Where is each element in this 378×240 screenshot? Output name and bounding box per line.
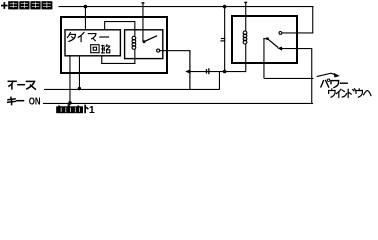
label 回路 — [91, 44, 111, 53]
node junction dot timer to earth rail — [78, 87, 81, 90]
wire earth rail — [44, 89, 220, 90]
relay K2 lower contact arrowhead — [277, 47, 282, 51]
label ポイント1 — [56, 104, 95, 116]
wire key-on rail — [43, 103, 313, 104]
label アース — [8, 81, 35, 89]
wire top rail down to relay K1 switch pivot (with stub above rail) — [142, 2, 143, 42]
wire K1 coil bottom down and left to timer — [134, 49, 135, 64]
relay K2 switch pivot — [266, 37, 269, 40]
timer unit outer box — [61, 17, 167, 73]
relay K1 switch pivot — [143, 40, 146, 43]
wire timer pin to earth rail — [79, 56, 80, 89]
annotation arrow to power window — [317, 73, 335, 76]
relay K2 coil — [243, 31, 247, 44]
relay K2 upper contact circle — [279, 32, 282, 35]
wire top rail to timer box top — [85, 6, 86, 30]
label キーON — [8, 97, 24, 104]
label タイマー — [67, 32, 108, 41]
wire top rail right corner down to K2 upper contact — [312, 6, 313, 33]
wire K2 switch common riser — [263, 38, 264, 78]
relay K1 box — [125, 30, 163, 59]
svg-text:ON: ON — [29, 97, 41, 108]
label +常時電源 (constant power) — [1, 1, 52, 9]
wire timer output up-over to relay K1 coil — [104, 21, 105, 30]
node junction dot on top rail feeding connector wire — [223, 5, 227, 9]
node junction dot on link wire — [223, 70, 227, 74]
wire timer pin to key-on rail — [69, 56, 70, 104]
wire top rail down to junction at y71 — [224, 6, 225, 72]
wire horizontal link y71 with arrowhead at left — [185, 69, 190, 74]
wire K2 coil bottom to link wire — [245, 43, 246, 72]
relay K1 contact circle — [157, 49, 160, 52]
relay K1 switch blade — [144, 36, 157, 42]
label パワー — [321, 79, 347, 88]
relay K1 coil — [132, 36, 136, 49]
wire output line down to key-on rail — [311, 48, 312, 104]
connector (inline plug) on vertical wire — [221, 38, 225, 39]
wire earth rail riser — [219, 71, 220, 90]
wire top rail down to relay K2 coil (with stub above rail) — [245, 2, 246, 32]
relay K2 box — [232, 16, 297, 63]
connector (inline plug) on link wire — [206, 69, 207, 73]
label ウインドウヘ — [329, 89, 371, 98]
relay K2 switch blade — [268, 39, 279, 48]
wire K2 lower contact to output line — [282, 48, 312, 49]
wire K2 upper contact to top rail — [282, 32, 313, 33]
wire K2 common to output line — [264, 78, 314, 79]
wire K1 output to the right and down — [160, 50, 190, 51]
wire +12V top rail — [59, 6, 314, 7]
timer circuit box U1 — [65, 30, 120, 56]
svg-text:1: 1 — [89, 104, 95, 116]
node junction dot timer to key-on rail — [68, 101, 72, 105]
node junction dot on top rail feeding timer — [84, 5, 88, 9]
